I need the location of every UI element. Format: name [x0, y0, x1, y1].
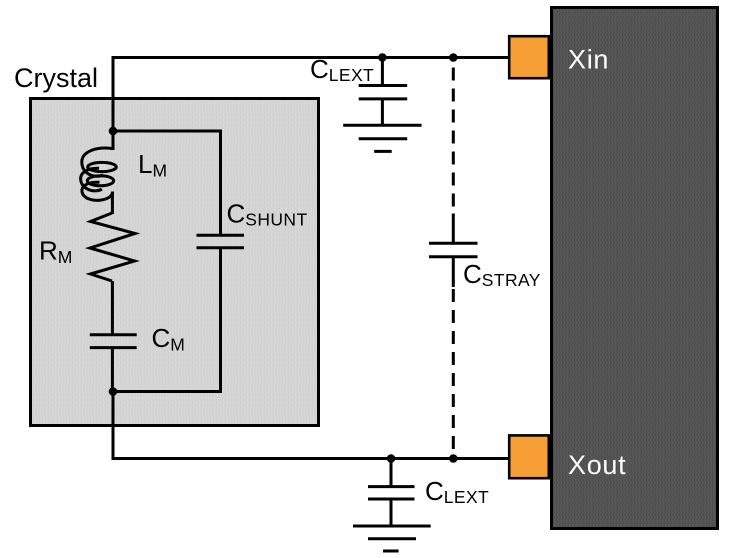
pin Xin (orange pad): [509, 36, 549, 78]
pin Xout (orange pad): [509, 435, 549, 478]
junction dot bottom CLEXT tap: [387, 454, 396, 463]
ground (top CLEXT): [343, 124, 421, 127]
junction dot bottom CSTRAY tap: [449, 454, 458, 463]
capacitor CSTRAY plates: [429, 242, 478, 245]
junction dot top CLEXT tap: [378, 53, 387, 62]
wire dashed CSTRAY upper: [452, 68, 455, 215]
wire dashed CSTRAY lower: [452, 289, 455, 453]
svg-text:Xout: Xout: [568, 450, 626, 480]
wire top: node A to Xin pin: [113, 58, 508, 132]
wire shunt branch bottom: [113, 247, 221, 392]
wire node A to inductor: [112, 131, 115, 150]
node A junction dot: [109, 127, 118, 136]
svg-text:Crystal: Crystal: [14, 63, 98, 93]
wire inductor to resistor: [111, 193, 114, 215]
wire top CLEXT lead: [381, 58, 384, 86]
capacitor CLEXT bottom plates: [368, 485, 415, 488]
ground (bottom CLEXT): [353, 525, 431, 528]
wire bottom CLEXT lead: [390, 459, 393, 487]
svg-text:Xin: Xin: [568, 45, 609, 75]
junction dot top CSTRAY tap: [449, 53, 458, 62]
inductor LM coil: [81, 148, 117, 200]
wire CLEXT bottom to ground: [390, 499, 393, 526]
wire bottom: node B to Xout pin: [113, 392, 508, 459]
wire CSTRAY lower lead: [452, 257, 455, 287]
capacitor CSHUNT plates: [197, 234, 245, 237]
wire resistor to CM: [111, 281, 114, 335]
node B junction dot: [109, 387, 118, 396]
capacitor CM plates: [90, 333, 137, 336]
wire shunt branch top: [113, 131, 221, 236]
resistor RM zigzag: [90, 213, 135, 281]
wire CSTRAY upper lead: [452, 214, 455, 244]
wire CLEXT top to ground: [381, 99, 384, 125]
capacitor CLEXT top plates: [359, 84, 408, 87]
crystal package box: [31, 99, 319, 426]
chip U1 (oscillator IC body): [552, 8, 718, 529]
wire CM to node B: [111, 348, 114, 392]
